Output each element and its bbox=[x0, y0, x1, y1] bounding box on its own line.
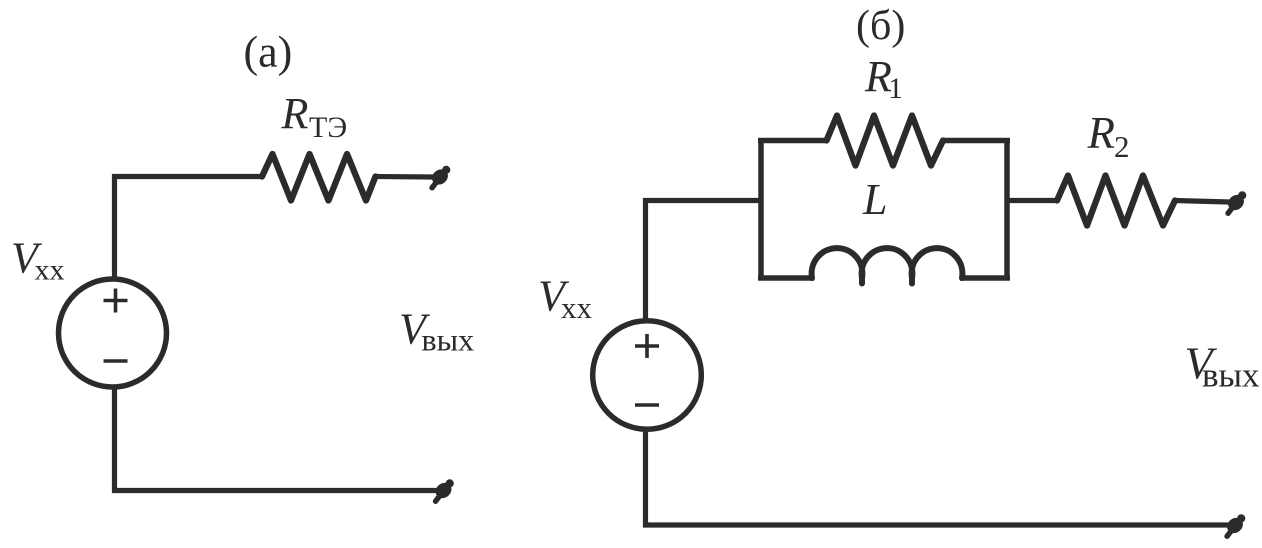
wire: R2 to output terminal (b) bbox=[1175, 201, 1229, 203]
label V_xx (a) bbox=[11, 234, 65, 287]
parallel block bottom edge left segment bbox=[758, 275, 814, 281]
wire: source (a) positive terminal up and top rail bbox=[115, 177, 263, 281]
parallel block bottom edge right segment bbox=[960, 275, 1010, 281]
svg-text:R: R bbox=[1087, 108, 1116, 158]
svg-text:ТЭ: ТЭ bbox=[309, 111, 347, 144]
parallel block top edge left segment bbox=[758, 138, 827, 144]
label R_2 bbox=[1087, 108, 1130, 164]
svg-text:хх: хх bbox=[561, 290, 593, 325]
inductor L bbox=[812, 248, 963, 283]
minus sign (b) bbox=[635, 403, 659, 407]
svg-text:2: 2 bbox=[1114, 129, 1130, 164]
wire: source (b) negative terminal down and bottom rail bbox=[646, 429, 1229, 526]
svg-text:R: R bbox=[281, 89, 309, 138]
terminal: output bottom (a) bbox=[433, 479, 455, 501]
label V_xx (b) bbox=[538, 272, 593, 326]
resistor R_TE bbox=[262, 154, 376, 201]
voltage source V_xx (a) bbox=[59, 279, 167, 387]
wire: resistor to output terminal (a) bbox=[376, 174, 434, 180]
plus sign (b) bbox=[635, 334, 659, 358]
parallel block right edge bbox=[1004, 138, 1010, 281]
label R_TE value bbox=[281, 89, 348, 144]
svg-text:1: 1 bbox=[888, 72, 903, 105]
svg-text:вых: вых bbox=[422, 322, 475, 358]
terminal: output top (a) bbox=[429, 166, 451, 188]
wire: source (a) negative terminal down and bottom rail bbox=[115, 387, 438, 491]
svg-text:вых: вых bbox=[1202, 356, 1260, 395]
plus sign (a) bbox=[104, 289, 128, 313]
resistor R1 bbox=[827, 116, 944, 166]
label V_out (b) bbox=[1185, 338, 1261, 395]
svg-text:L: L bbox=[862, 175, 887, 224]
svg-text:хх: хх bbox=[35, 254, 65, 287]
parallel block left edge bbox=[758, 141, 764, 279]
minus sign (a) bbox=[104, 359, 128, 363]
parallel block top edge right segment bbox=[943, 138, 1010, 144]
svg-text:(б): (б) bbox=[856, 3, 905, 49]
svg-text:(a): (a) bbox=[244, 28, 293, 77]
wire: parallel block to resistor R2 bbox=[1007, 198, 1057, 203]
label R_1 bbox=[864, 52, 903, 105]
terminal: output top (b) bbox=[1225, 191, 1247, 213]
resistor R2 bbox=[1057, 176, 1175, 226]
terminal: output bottom (b) bbox=[1224, 514, 1246, 536]
label V_out (a) bbox=[399, 305, 474, 358]
voltage source V_xx (b) bbox=[593, 321, 702, 430]
wire: source (b) to parallel block (mid rail left) bbox=[646, 201, 762, 323]
